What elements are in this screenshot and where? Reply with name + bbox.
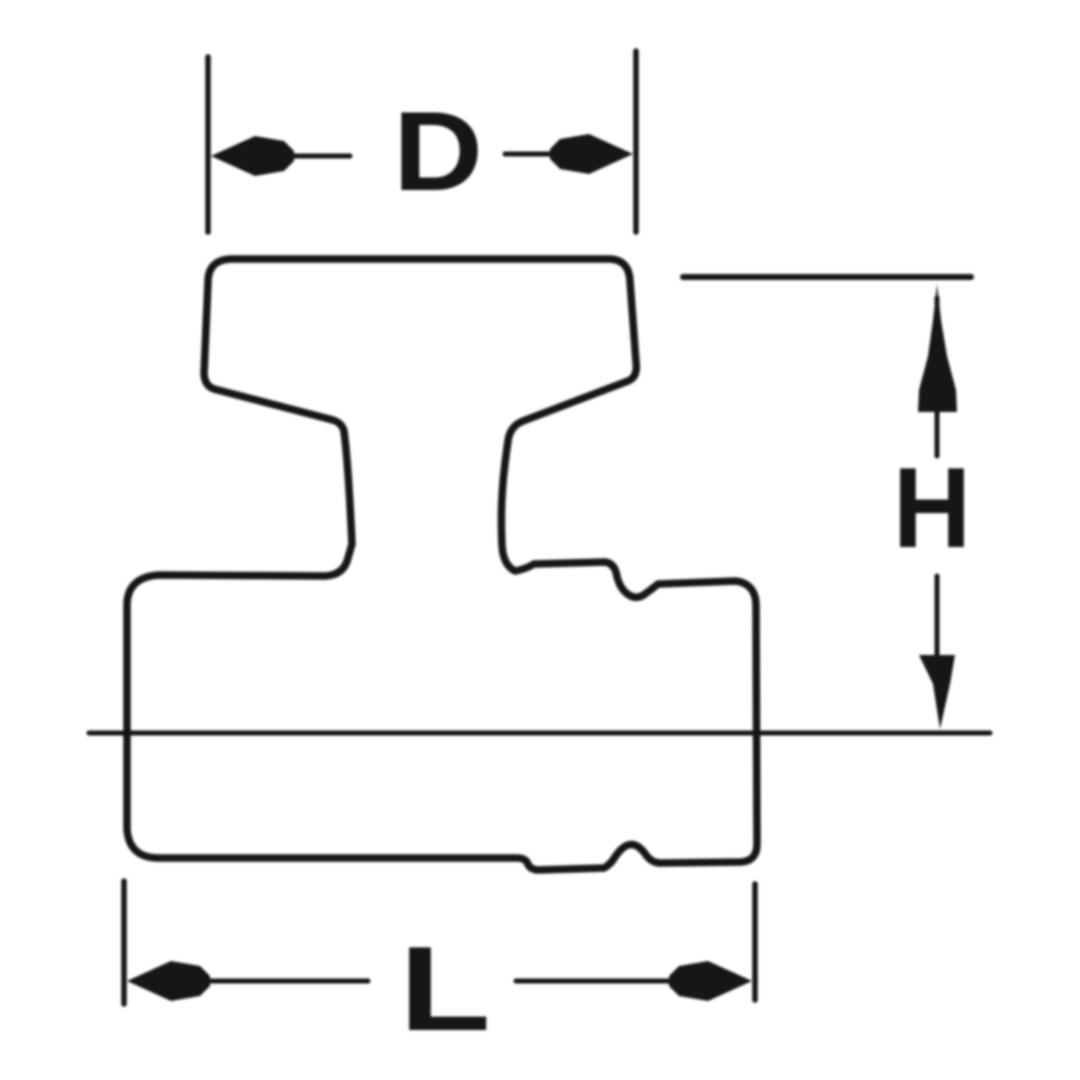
dimension D extension line right <box>633 51 639 232</box>
dimension D arrowhead right <box>550 134 633 174</box>
svg-text:L: L <box>399 921 491 1055</box>
dimension D label <box>393 90 483 215</box>
dimension D line left segment <box>230 154 350 159</box>
dimension H arrowhead down <box>919 655 955 729</box>
dimension L line right segment <box>516 979 700 984</box>
dimension D line right segment <box>505 152 580 157</box>
dimension L extension line left <box>121 881 127 1004</box>
dimension H label <box>893 443 971 571</box>
dimension L extension line right <box>752 884 758 1000</box>
dimension L arrowhead right <box>669 961 752 1001</box>
svg-text:H: H <box>893 443 971 571</box>
dimension D arrowhead left <box>211 136 294 176</box>
valve body outline <box>127 259 757 870</box>
svg-text:D: D <box>393 90 483 215</box>
dimension H line upper segment <box>935 298 940 456</box>
centerline <box>89 731 990 736</box>
dimension H line lower segment <box>935 576 940 655</box>
dimension L arrowhead left <box>127 961 210 1001</box>
dimension L line left segment <box>145 979 368 984</box>
dimension H reference line top <box>683 274 971 280</box>
dimension L label <box>399 921 491 1055</box>
dimension D extension line left <box>205 57 211 232</box>
dimension H arrowhead up <box>918 284 957 412</box>
